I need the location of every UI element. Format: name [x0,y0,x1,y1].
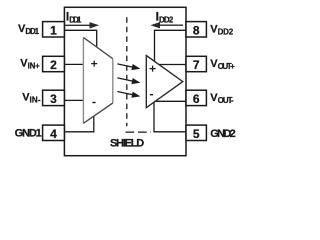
A2 minus sign [150,94,153,96]
IDD2 arrow [150,22,183,28]
svg-text:1: 1 [50,23,57,37]
pin 3 box [43,90,65,105]
wire pin4 GND1 to amp A1 bottom [64,116,93,132]
svg-text:SHIELD: SHIELD [110,137,144,149]
pin 2 box [43,56,65,71]
svg-text:4: 4 [50,127,57,141]
pin 5 box [186,125,206,140]
svg-text:GND1: GND1 [15,127,42,139]
svg-text:8: 8 [193,23,200,37]
isolation barrier dashed line [126,17,128,126]
pin 6 box [186,90,206,105]
pin 4 box [43,125,65,140]
svg-text:3: 3 [50,92,57,106]
pin 1 box [43,22,65,37]
A2 plus sign [150,66,156,72]
wire pin3 VIN- to amp A1 [64,99,83,101]
IDD1 arrow [65,22,99,28]
wire pin2 VIN+ to amp A1 [64,63,83,65]
svg-text:VDD2: VDD2 [210,23,233,36]
wire pin8 VDD2 to amp A2 top [155,30,187,61]
amplifier A1 (input side, truncated triangle) [83,37,112,123]
wire pin1 VDD1 to amp A1 top [64,30,96,46]
svg-text:IDD2: IDD2 [156,9,174,24]
signal arrow 3 [117,92,140,98]
wire pin7 VOUT+ [159,64,186,66]
svg-text:VOUT+: VOUT+ [210,58,235,71]
IC body outline [64,7,186,155]
shield dashed link to GND2 [126,131,152,133]
svg-text:5: 5 [193,127,200,141]
pin 7 box [186,56,206,71]
wire pin5 GND2 to amp A2 bottom [154,102,186,132]
A1 plus sign [91,61,97,67]
svg-text:VIN+: VIN+ [20,57,40,70]
svg-text:6: 6 [193,92,200,106]
svg-text:VIN-: VIN- [22,92,41,105]
amplifier A2 (output side triangle) [146,56,183,108]
signal arrow 1 [117,64,140,70]
svg-text:2: 2 [50,58,57,72]
svg-text:VOUT-: VOUT- [210,92,234,105]
pin 8 box [186,22,206,37]
signal arrow 2 [117,78,140,84]
wire pin6 VOUT- [154,100,186,102]
A1 minus sign [92,102,95,104]
svg-text:7: 7 [193,58,200,72]
svg-text:VDD1: VDD1 [18,23,40,36]
svg-text:GND2: GND2 [210,128,236,140]
svg-text:IDD1: IDD1 [66,9,82,24]
